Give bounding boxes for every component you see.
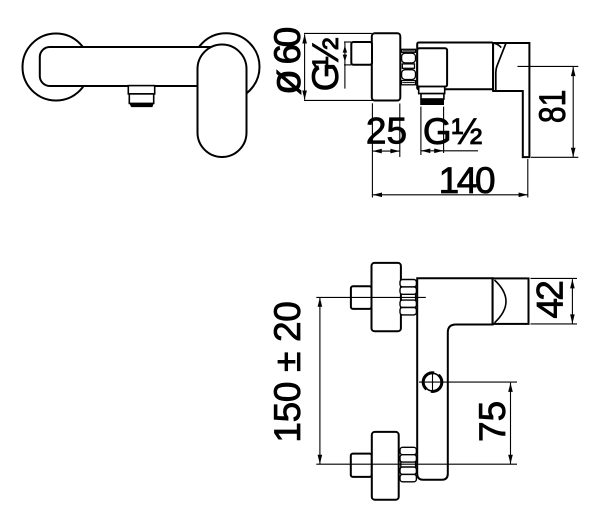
svg-text:75: 75 bbox=[472, 401, 513, 442]
svg-text:25: 25 bbox=[366, 111, 407, 152]
svg-text:G½: G½ bbox=[305, 37, 346, 91]
svg-text:140: 140 bbox=[439, 160, 496, 201]
svg-text:42: 42 bbox=[529, 280, 570, 319]
svg-text:150 ± 20: 150 ± 20 bbox=[267, 301, 308, 443]
svg-text:ø 60: ø 60 bbox=[263, 27, 310, 96]
svg-text:G½: G½ bbox=[423, 111, 483, 152]
svg-text:81: 81 bbox=[532, 90, 573, 124]
